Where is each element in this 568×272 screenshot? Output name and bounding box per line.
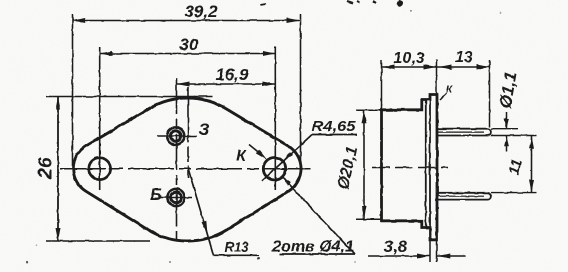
svg-text:Б: Б: [150, 185, 162, 204]
svg-text:З: З: [199, 120, 210, 139]
label R13 with leader from arc center: [188, 169, 213, 255]
svg-text:3,8: 3,8: [384, 237, 408, 256]
svg-text:30: 30: [180, 35, 199, 54]
can rim inner lines: [425, 100, 427, 228]
dim 11 pin spacing: [531, 136, 533, 193]
vertical center line through pins: [176, 78, 178, 245]
flange plate right face: [436, 95, 438, 240]
short center mark of R13 arcs: [187, 87, 189, 178]
dim 16,9 line: [177, 83, 276, 85]
svg-text:2отв Ø4,1: 2отв Ø4,1: [271, 239, 354, 256]
svg-text:13: 13: [455, 49, 473, 66]
scan artifacts: [397, 0, 403, 7]
svg-text:39,2: 39,2: [184, 2, 218, 21]
pin B (base lead): [167, 189, 184, 206]
dim 26 extension top: [46, 96, 212, 98]
horizontal center line: [60, 168, 312, 170]
left hole vertical center tick: [99, 146, 101, 190]
dim 39,2 extension lines: [72, 14, 74, 169]
top pin (side view): [437, 129, 491, 136]
side view can body outline: [382, 95, 438, 240]
side view center line: [372, 167, 448, 169]
dim O20,1 can dia: [363, 110, 365, 219]
svg-text:К: К: [236, 148, 247, 165]
dim 3,8 flange thickness: [368, 255, 430, 257]
bottom pin (side view): [437, 193, 491, 200]
dim 13: [437, 66, 490, 68]
dim O1,1 pin dia: [491, 128, 518, 130]
dim 39,2 line: [73, 20, 300, 22]
svg-text:26: 26: [36, 157, 57, 180]
svg-text:16,9: 16,9: [215, 65, 249, 84]
svg-text:R4,65: R4,65: [312, 118, 357, 135]
right mounting hole: [263, 158, 285, 180]
label 2otv D4,1 with leader to hole: [282, 177, 354, 254]
left mounting hole: [89, 158, 111, 180]
dim 10,3: [382, 66, 437, 68]
dim 26 line: [57, 97, 59, 242]
flange outline (front view, rhombic TO-3 body): [73, 98, 301, 241]
svg-text:R13: R13: [225, 239, 250, 256]
dim 30 extension lines: [99, 47, 101, 146]
pin Z (emitter lead): [167, 127, 184, 144]
svg-text:10,3: 10,3: [393, 50, 424, 67]
dim 30 line: [100, 53, 276, 55]
dim 26 extension bottom: [46, 240, 150, 242]
